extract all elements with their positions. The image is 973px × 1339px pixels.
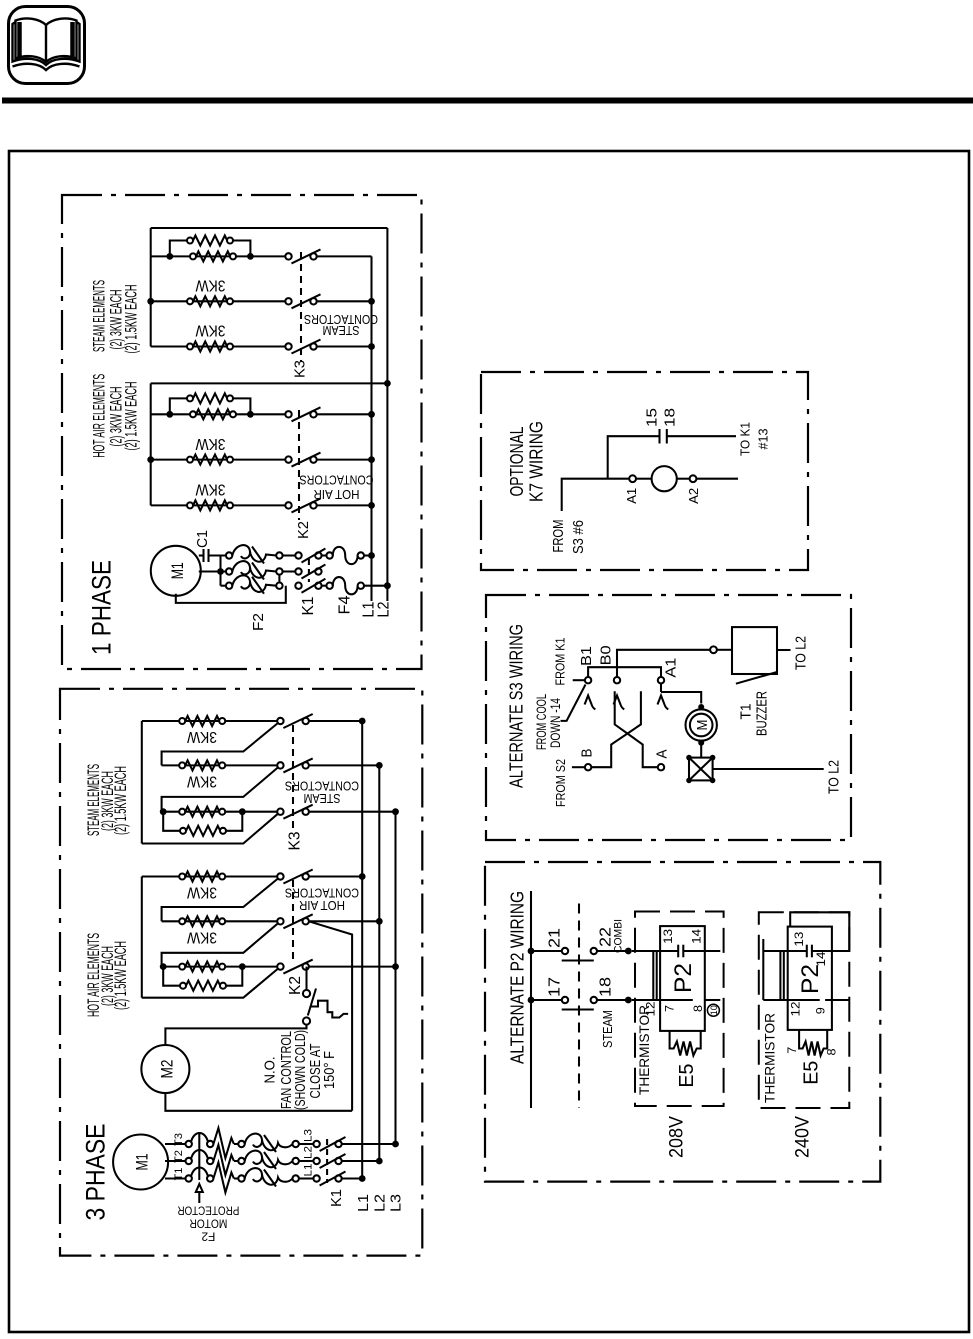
row A wire into P2 bbox=[632, 950, 679, 952]
bus L1 (3ph) bbox=[361, 721, 363, 1179]
svg-text:DOWN -14: DOWN -14 bbox=[547, 698, 563, 748]
svg-text:F4: F4 bbox=[336, 595, 353, 614]
bus L3 (3ph) bbox=[394, 812, 396, 1144]
svg-text:13: 13 bbox=[661, 929, 675, 944]
svg-text:M: M bbox=[694, 720, 711, 731]
svg-text:15: 15 bbox=[644, 408, 661, 427]
K1 actuator dashed (3ph) bbox=[326, 1139, 328, 1183]
svg-text:T1: T1 bbox=[173, 1168, 185, 1181]
svg-text:C1: C1 bbox=[194, 530, 211, 548]
svg-text:P2: P2 bbox=[797, 964, 824, 994]
svg-text:18: 18 bbox=[597, 977, 614, 997]
crossover switch conductors bbox=[615, 691, 658, 767]
hotair1 contactor pole 2 bbox=[285, 456, 291, 462]
svg-text:208V: 208V bbox=[667, 1116, 688, 1158]
switch row 21-22 bbox=[531, 950, 562, 952]
svg-text:8: 8 bbox=[691, 1005, 705, 1012]
svg-text:13: 13 bbox=[792, 931, 806, 946]
row B wire (240V) bbox=[763, 999, 819, 1001]
svg-text:OPTIONAL: OPTIONAL bbox=[507, 427, 527, 497]
hotair3 bottom wire bbox=[142, 969, 278, 998]
thermistor E5 (240V) bbox=[799, 1030, 827, 1056]
svg-text:E5: E5 bbox=[801, 1061, 823, 1085]
K1 pole L3 bbox=[299, 1143, 314, 1145]
steam3 branch1 resistor 3KW bbox=[142, 720, 278, 722]
svg-text:CONTACTORS: CONTACTORS bbox=[299, 473, 373, 488]
svg-text:T3: T3 bbox=[173, 1133, 185, 1146]
svg-text:A1: A1 bbox=[663, 658, 680, 678]
240V dashed sub-box bbox=[759, 912, 850, 1108]
svg-text:B: B bbox=[579, 749, 596, 758]
hotair3 contactor pole1 bbox=[277, 873, 283, 879]
svg-text:ALTERNATE S3 WIRING: ALTERNATE S3 WIRING bbox=[507, 624, 527, 788]
svg-text:8: 8 bbox=[825, 1048, 839, 1055]
wire from S3 #6 bbox=[562, 479, 630, 511]
wire A1 to motor bbox=[660, 683, 662, 692]
open book icon bbox=[13, 18, 80, 70]
protector F2 row T2 bbox=[165, 1160, 186, 1162]
svg-text:3KW: 3KW bbox=[195, 435, 225, 452]
svg-text:3KW: 3KW bbox=[187, 773, 217, 790]
contactor K2 actuator dashed bbox=[298, 410, 300, 520]
motor mid wire bbox=[199, 570, 226, 572]
svg-text:3 PHASE: 3 PHASE bbox=[81, 1124, 111, 1221]
switch K1 bottom pole bbox=[295, 583, 301, 589]
svg-text:L2: L2 bbox=[375, 601, 392, 617]
steam1 top feed wire bbox=[151, 227, 388, 229]
protector F2 row T3 bbox=[165, 1143, 186, 1145]
steam3 bottom wire bbox=[142, 814, 278, 844]
terminal A1 bbox=[658, 677, 664, 683]
hotair1 top feed wire bbox=[151, 382, 388, 384]
bus B (L2) vertical bbox=[386, 228, 388, 601]
K1 pole L1 bbox=[299, 1177, 314, 1179]
switch K1 middle pole bbox=[295, 568, 301, 574]
svg-text:(2) 1.5KW EACH: (2) 1.5KW EACH bbox=[111, 766, 130, 835]
svg-text:K1: K1 bbox=[328, 1189, 345, 1207]
svg-text:7: 7 bbox=[785, 1046, 799, 1053]
svg-text:A2: A2 bbox=[686, 488, 701, 504]
motor bottom bypass wire bbox=[176, 586, 286, 603]
svg-text:STEAM: STEAM bbox=[304, 791, 341, 806]
svg-text:K3: K3 bbox=[292, 360, 309, 378]
switch actuator dashed bbox=[578, 904, 580, 1109]
svg-text:7: 7 bbox=[663, 1005, 677, 1012]
svg-text:(2) 1.5KW EACH: (2) 1.5KW EACH bbox=[122, 285, 141, 354]
svg-text:P2: P2 bbox=[670, 963, 697, 993]
wire B0 to buzzer bbox=[617, 650, 710, 677]
K1 pole output wires bbox=[342, 1143, 396, 1145]
svg-text:BUZZER: BUZZER bbox=[753, 691, 770, 736]
svg-text:TO K1: TO K1 bbox=[738, 422, 753, 456]
svg-text:T1: T1 bbox=[738, 704, 755, 720]
steam1 1.5KW resistor pair bbox=[166, 253, 173, 260]
terminal B bbox=[585, 764, 591, 770]
FROM COOL DOWN -14 wire bbox=[561, 685, 586, 721]
steam3 branch3 1.5KW pair bbox=[162, 811, 278, 813]
hotair3 left vertical bbox=[141, 877, 143, 998]
relay coil K7 bbox=[629, 475, 636, 482]
steam1 branch3 resistor 3KW bbox=[151, 345, 286, 347]
steam3 pole output wires bbox=[309, 720, 363, 722]
circled 10 bbox=[707, 1004, 719, 1016]
hotair3 contactor pole2 bbox=[277, 918, 283, 924]
svg-text:3KW: 3KW bbox=[195, 481, 225, 498]
switch K1 top pole bbox=[295, 552, 301, 558]
top wire B1-A1 bbox=[588, 667, 661, 677]
steam1 contactor pole 3 bbox=[285, 343, 291, 349]
svg-text:3KW: 3KW bbox=[187, 884, 217, 901]
motor M2 bbox=[141, 1045, 189, 1093]
svg-text:B1: B1 bbox=[578, 646, 595, 666]
svg-text:MOTOR: MOTOR bbox=[189, 1216, 227, 1230]
ALTERNATE P2 WIRING dashed box bbox=[485, 862, 880, 1182]
svg-text:240V: 240V bbox=[793, 1116, 814, 1158]
svg-text:S3 #6: S3 #6 bbox=[570, 520, 587, 554]
svg-text:10: 10 bbox=[709, 1005, 719, 1015]
svg-text:(2) 1.5KW EACH: (2) 1.5KW EACH bbox=[122, 382, 141, 451]
svg-text:N.O.: N.O. bbox=[262, 1057, 279, 1084]
hotair3 step wire 1 bbox=[162, 879, 278, 922]
buzzer T1 box bbox=[732, 627, 777, 674]
hotair1 branch2 resistor 3KW bbox=[151, 459, 286, 461]
svg-text:M1: M1 bbox=[168, 562, 187, 579]
svg-text:B0: B0 bbox=[598, 645, 615, 665]
OPTIONAL K7 WIRING dashed box bbox=[481, 372, 808, 570]
contactor K3 actuator dashed (3ph) bbox=[292, 725, 294, 828]
svg-text:21: 21 bbox=[546, 928, 563, 948]
hotair1 contactor pole 3 bbox=[285, 502, 291, 508]
book icon frame bbox=[9, 7, 85, 84]
wire motor to X box bbox=[700, 741, 702, 758]
motor M1 (3 phase) bbox=[113, 1135, 168, 1190]
svg-text:M2: M2 bbox=[157, 1060, 176, 1079]
svg-text:HOT AIR: HOT AIR bbox=[314, 487, 360, 502]
svg-text:TO L2: TO L2 bbox=[826, 760, 843, 794]
240V left wire bbox=[762, 939, 764, 1000]
svg-text:ALTERNATE P2 WIRING: ALTERNATE P2 WIRING bbox=[508, 891, 528, 1064]
svg-text:#13: #13 bbox=[756, 429, 771, 450]
terminal B0 bbox=[614, 677, 620, 683]
vertical feed wire to rows bbox=[219, 556, 221, 586]
svg-text:3KW: 3KW bbox=[187, 929, 217, 946]
hotair3 branch2 resistor 3KW bbox=[162, 920, 278, 922]
hotair3 step wire 2 bbox=[162, 923, 278, 966]
F2 right link mid-bottom bbox=[278, 575, 280, 583]
fuse F4 bottom bbox=[326, 583, 332, 589]
svg-text:150° F: 150° F bbox=[321, 1051, 338, 1089]
hotair1 contactor pole 1 bbox=[285, 411, 291, 417]
svg-text:PROTECTOR: PROTECTOR bbox=[177, 1203, 239, 1217]
svg-text:K1: K1 bbox=[300, 596, 317, 615]
N.O. fan control switch bbox=[305, 967, 307, 990]
svg-text:STEAM: STEAM bbox=[323, 323, 360, 338]
svg-text:THERMISTOR: THERMISTOR bbox=[761, 1013, 777, 1103]
hotair1 branch3 resistor 3KW bbox=[151, 504, 286, 506]
svg-text:3KW: 3KW bbox=[195, 322, 225, 339]
svg-text:3KW: 3KW bbox=[195, 276, 225, 293]
contactor K3 actuator dashed bbox=[300, 252, 302, 361]
steam3 contactor pole3 bbox=[277, 809, 283, 815]
capacitor 13-14 bbox=[677, 945, 679, 958]
240V thermistor link double verticals bbox=[779, 951, 781, 1000]
thermistor E5 (208V) bbox=[670, 1031, 701, 1056]
capacitor 15/18 bbox=[658, 429, 660, 444]
svg-text:COMBI: COMBI bbox=[613, 919, 625, 953]
3 PHASE dashed box bbox=[60, 689, 422, 1256]
hotair1 1.5KW resistor pair bbox=[166, 411, 173, 418]
240V top loop wire bbox=[790, 912, 849, 951]
svg-text:STEAM: STEAM bbox=[601, 1010, 615, 1048]
svg-text:HOT AIR ELEMENTS: HOT AIR ELEMENTS bbox=[90, 374, 109, 458]
steam1 contactor pole 1 bbox=[285, 253, 291, 259]
left supply vertical bbox=[530, 891, 532, 1108]
steam1 branch1 wire bbox=[151, 255, 286, 257]
steam1 left bus bbox=[150, 228, 152, 347]
K1 actuator dashed bbox=[308, 559, 310, 582]
hotair3 pole output wires bbox=[309, 875, 363, 877]
bus A (L1) vertical bbox=[370, 256, 372, 601]
svg-text:L1: L1 bbox=[355, 1194, 372, 1212]
switch row 17-18 bbox=[531, 999, 562, 1001]
steam1 branch2 resistor 3KW bbox=[151, 300, 286, 302]
hotair1 branch1 wire bbox=[151, 413, 286, 415]
protector F2 row T1 bbox=[165, 1177, 186, 1179]
F2 actuator vertical bbox=[198, 1132, 200, 1180]
wire hotair pole2 to fan motor M2 bbox=[309, 921, 352, 1111]
top rule bbox=[2, 98, 973, 104]
wire buzzer to L2 bbox=[777, 649, 791, 651]
208V dashed sub-box bbox=[635, 912, 724, 1107]
svg-text:K3: K3 bbox=[286, 831, 303, 850]
steam3 left vertical bbox=[141, 721, 143, 844]
svg-text:TO L2: TO L2 bbox=[792, 636, 809, 670]
svg-text:HOT AIR: HOT AIR bbox=[299, 898, 345, 913]
fuse F4 top bbox=[326, 552, 332, 558]
motor M1 (1 phase) bbox=[151, 546, 201, 596]
steam1 contactor pole 2 bbox=[285, 298, 291, 304]
X terminal box bbox=[689, 758, 713, 781]
hotair3 branch3 1.5KW pair bbox=[162, 966, 278, 968]
thermistor link double verticals bbox=[652, 951, 654, 1000]
svg-text:THERMISTOR: THERMISTOR bbox=[636, 1005, 652, 1095]
svg-text:L2: L2 bbox=[303, 1146, 315, 1159]
wire M2 bottom bbox=[165, 1092, 352, 1110]
svg-text:FROM S2: FROM S2 bbox=[553, 759, 568, 807]
motor M (S3) bbox=[698, 704, 704, 710]
1 PHASE dashed box bbox=[62, 195, 422, 669]
svg-text:3KW: 3KW bbox=[187, 728, 217, 745]
svg-text:L3: L3 bbox=[388, 1194, 405, 1212]
capacitor 13-14 (240V) bbox=[806, 945, 808, 958]
wire fan switch to M2 bbox=[165, 1025, 306, 1046]
svg-text:T2: T2 bbox=[173, 1150, 185, 1163]
svg-text:L1: L1 bbox=[303, 1164, 315, 1177]
svg-text:K2: K2 bbox=[287, 976, 304, 995]
ALTERNATE S3 WIRING dashed box bbox=[486, 595, 851, 840]
svg-text:L2: L2 bbox=[372, 1194, 389, 1212]
F2 pointer arrow bbox=[196, 1184, 203, 1192]
svg-text:M1: M1 bbox=[132, 1154, 151, 1171]
P2 box (240V) bbox=[788, 927, 832, 1030]
steam3 step wire 1 bbox=[162, 723, 278, 765]
svg-text:E5: E5 bbox=[676, 1064, 698, 1088]
buzzer diagonal bbox=[736, 672, 777, 684]
svg-text:FROM K1: FROM K1 bbox=[552, 638, 567, 686]
wire X box to L2 bbox=[713, 768, 824, 770]
svg-text:9: 9 bbox=[814, 1007, 828, 1014]
svg-text:K2: K2 bbox=[295, 521, 312, 539]
hotair3 branch1 resistor 3KW bbox=[142, 875, 278, 877]
svg-text:L3: L3 bbox=[303, 1129, 315, 1142]
svg-text:K7 WIRING: K7 WIRING bbox=[527, 421, 547, 502]
steam3 contactor pole2 bbox=[277, 762, 283, 768]
svg-text:A1: A1 bbox=[624, 488, 639, 504]
contactor K2 actuator dashed (3ph) bbox=[292, 880, 294, 962]
buzzer terminal bbox=[710, 646, 717, 653]
svg-text:F2: F2 bbox=[250, 613, 267, 631]
svg-text:18: 18 bbox=[662, 408, 679, 427]
svg-text:14: 14 bbox=[814, 951, 828, 966]
FROM S2 stub bbox=[572, 766, 585, 768]
fixed contact chevrons bbox=[585, 696, 596, 710]
svg-text:14: 14 bbox=[689, 929, 703, 944]
svg-text:FROM: FROM bbox=[550, 520, 567, 553]
overload F2 cluster bbox=[226, 552, 232, 558]
svg-text:A: A bbox=[654, 750, 671, 759]
bus L2 (3ph) bbox=[378, 765, 380, 1161]
terminal B1 bbox=[573, 679, 585, 681]
P2 box (208V) bbox=[660, 926, 705, 1031]
svg-text:12: 12 bbox=[789, 1001, 803, 1016]
capacitor C1 bbox=[199, 554, 204, 556]
thermal actuator staircase bbox=[311, 1001, 349, 1018]
steam3 step wire 2 bbox=[162, 767, 278, 811]
terminal A bbox=[658, 764, 664, 770]
svg-text:17: 17 bbox=[546, 977, 563, 997]
wires F2 to K1 bbox=[283, 554, 296, 556]
svg-text:STEAM ELEMENTS: STEAM ELEMENTS bbox=[89, 280, 108, 352]
row B wire through P2 bbox=[632, 999, 693, 1001]
steam3 branch2 resistor 3KW bbox=[162, 764, 278, 766]
hotair1 left bus bbox=[150, 383, 152, 505]
branch wire to capacitor bbox=[608, 436, 660, 479]
hotair3 contactor pole3 bbox=[277, 963, 283, 969]
steam3 contactor pole1 bbox=[277, 718, 283, 724]
svg-text:(2) 1.5KW EACH: (2) 1.5KW EACH bbox=[111, 941, 130, 1010]
K1 pole L2 bbox=[299, 1160, 314, 1162]
svg-text:F2: F2 bbox=[201, 1229, 215, 1243]
svg-text:1 PHASE: 1 PHASE bbox=[87, 560, 117, 655]
